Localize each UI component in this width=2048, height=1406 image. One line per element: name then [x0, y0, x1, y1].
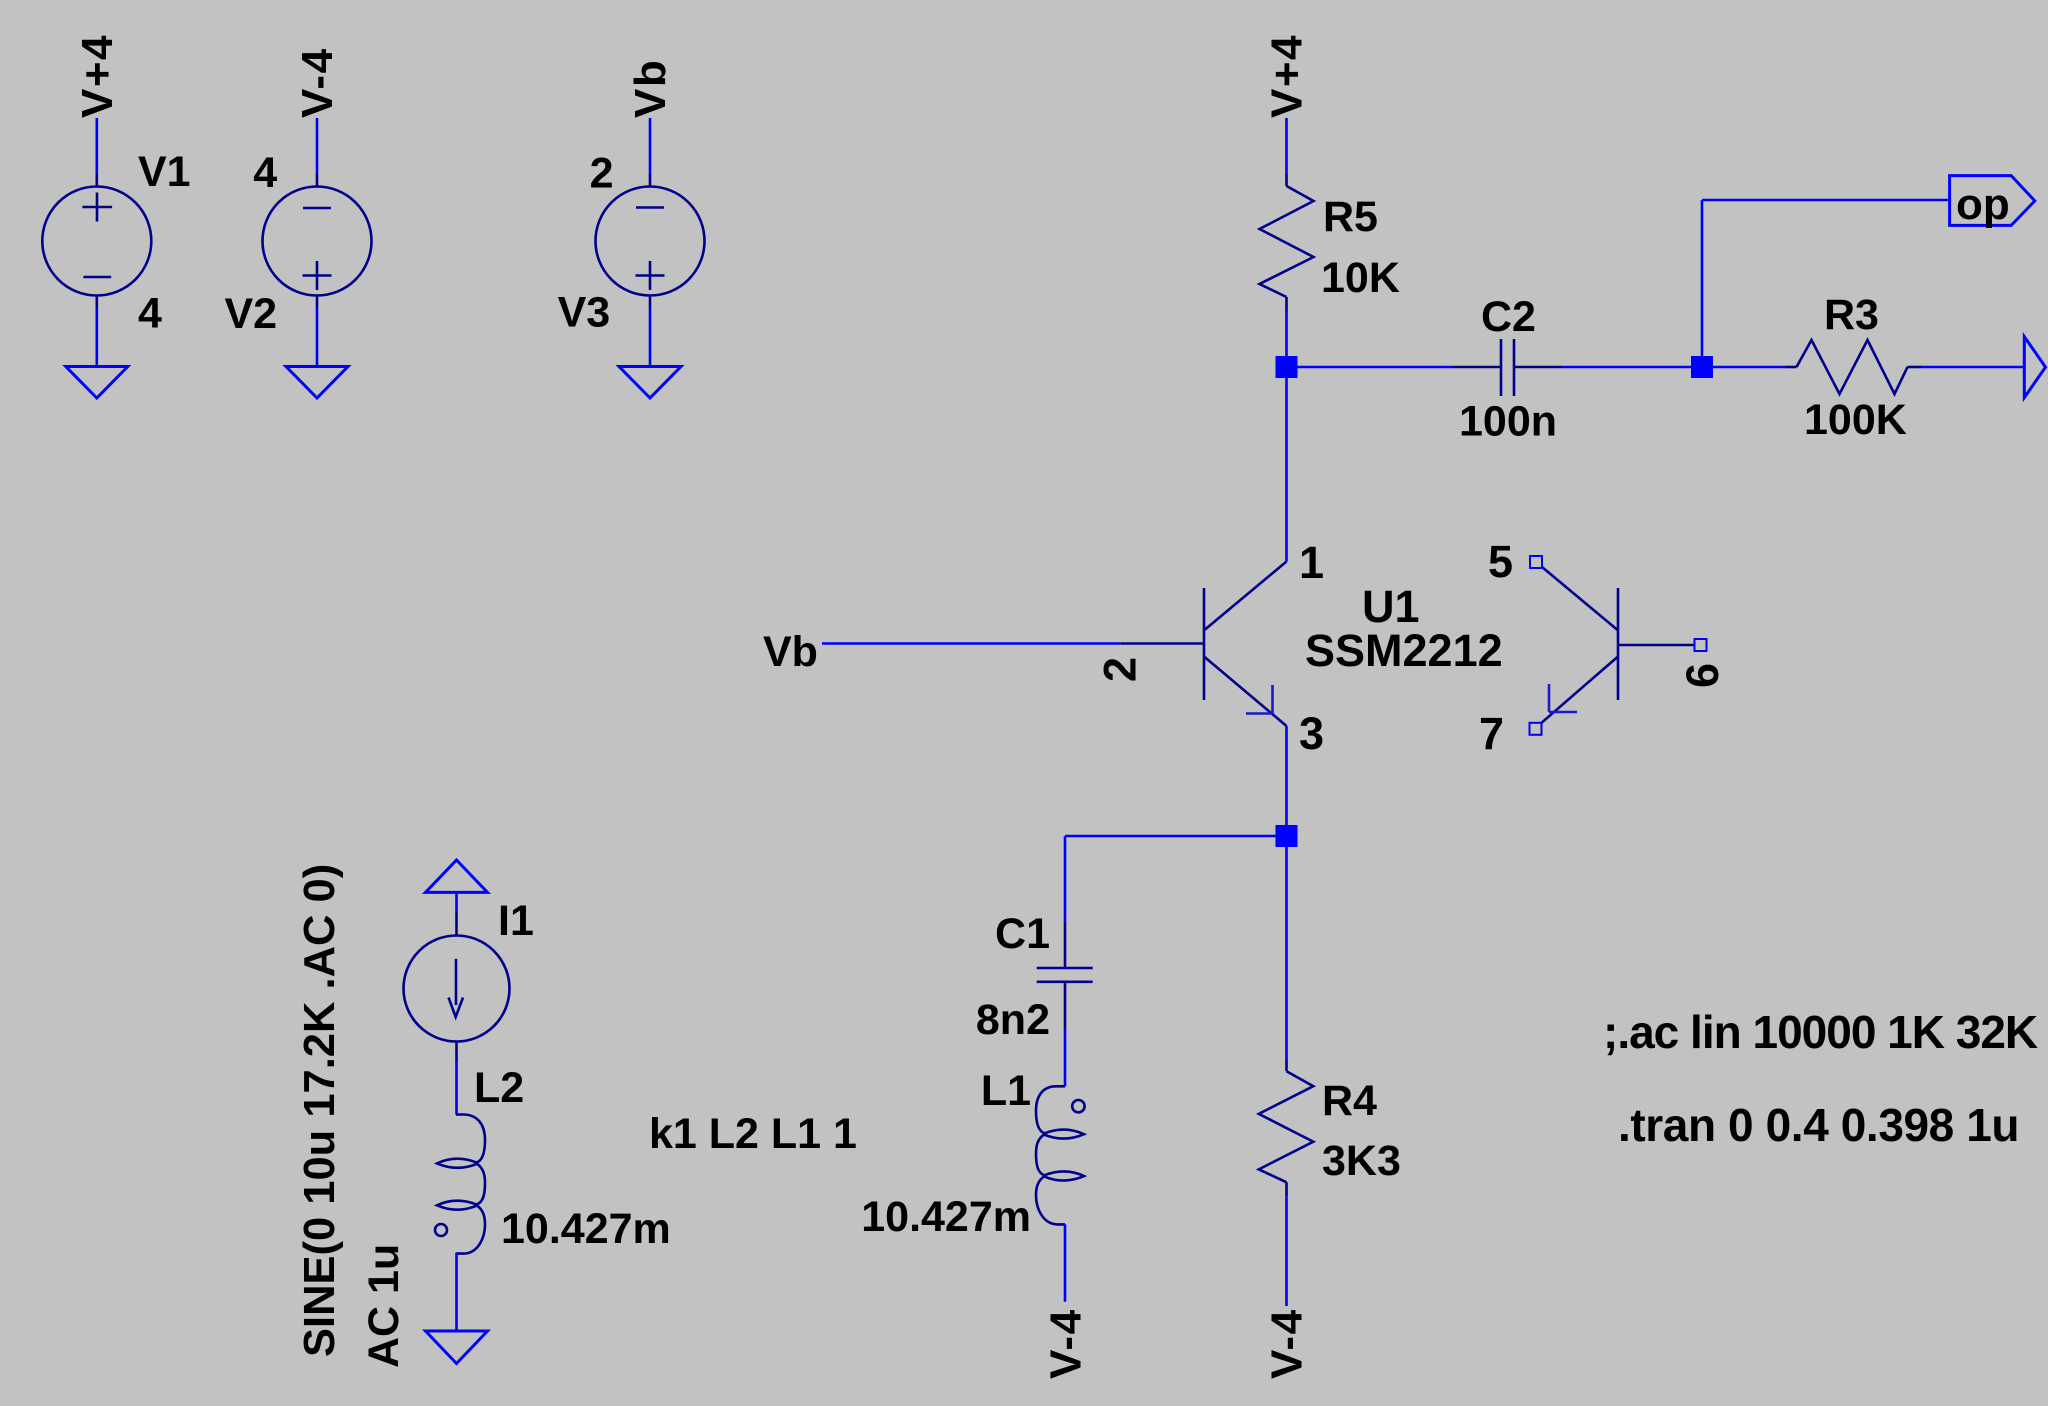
svg-text:.tran 0 0.4 0.398 1u: .tran 0 0.4 0.398 1u: [1618, 1099, 2019, 1151]
svg-text:SINE(0 10u 17.2K .AC 0): SINE(0 10u 17.2K .AC 0): [296, 864, 344, 1357]
svg-text:C1: C1: [995, 910, 1050, 958]
svg-text:;.ac lin 10000 1K 32K: ;.ac lin 10000 1K 32K: [1603, 1006, 2038, 1058]
svg-text:L1: L1: [981, 1067, 1031, 1115]
svg-text:100K: 100K: [1804, 396, 1907, 444]
svg-text:10.427m: 10.427m: [861, 1193, 1031, 1241]
svg-text:R5: R5: [1323, 193, 1378, 241]
svg-text:3: 3: [1299, 708, 1324, 759]
svg-text:R4: R4: [1322, 1077, 1377, 1125]
svg-text:8n2: 8n2: [976, 996, 1050, 1044]
svg-text:V-4: V-4: [1263, 1308, 1312, 1379]
svg-text:3K3: 3K3: [1322, 1137, 1401, 1185]
svg-text:L2: L2: [474, 1064, 524, 1112]
svg-text:10K: 10K: [1321, 254, 1400, 302]
svg-text:k1 L2 L1 1: k1 L2 L1 1: [649, 1110, 857, 1158]
svg-text:10.427m: 10.427m: [501, 1205, 671, 1253]
svg-text:I1: I1: [498, 897, 534, 945]
svg-text:7: 7: [1479, 708, 1504, 759]
svg-text:100n: 100n: [1459, 398, 1557, 446]
svg-text:AC 1u: AC 1u: [360, 1244, 408, 1368]
svg-text:C2: C2: [1481, 293, 1536, 341]
svg-text:R3: R3: [1824, 291, 1879, 339]
svg-text:op: op: [1956, 180, 2010, 229]
svg-text:V2: V2: [225, 290, 278, 338]
svg-text:V+4: V+4: [73, 34, 122, 118]
svg-text:2: 2: [590, 149, 614, 197]
svg-text:Vb: Vb: [626, 59, 675, 118]
svg-text:4: 4: [138, 290, 162, 338]
svg-text:1: 1: [1299, 537, 1324, 588]
svg-text:6: 6: [1677, 663, 1728, 688]
svg-text:V+4: V+4: [1263, 34, 1312, 118]
svg-text:V-4: V-4: [293, 47, 342, 118]
svg-text:Vb: Vb: [763, 628, 818, 676]
svg-text:SSM2212: SSM2212: [1305, 625, 1503, 676]
svg-text:V-4: V-4: [1042, 1308, 1091, 1379]
svg-text:V3: V3: [558, 289, 611, 337]
svg-text:5: 5: [1488, 536, 1513, 587]
svg-text:V1: V1: [138, 148, 191, 196]
svg-text:2: 2: [1095, 657, 1146, 682]
svg-text:4: 4: [253, 149, 277, 197]
